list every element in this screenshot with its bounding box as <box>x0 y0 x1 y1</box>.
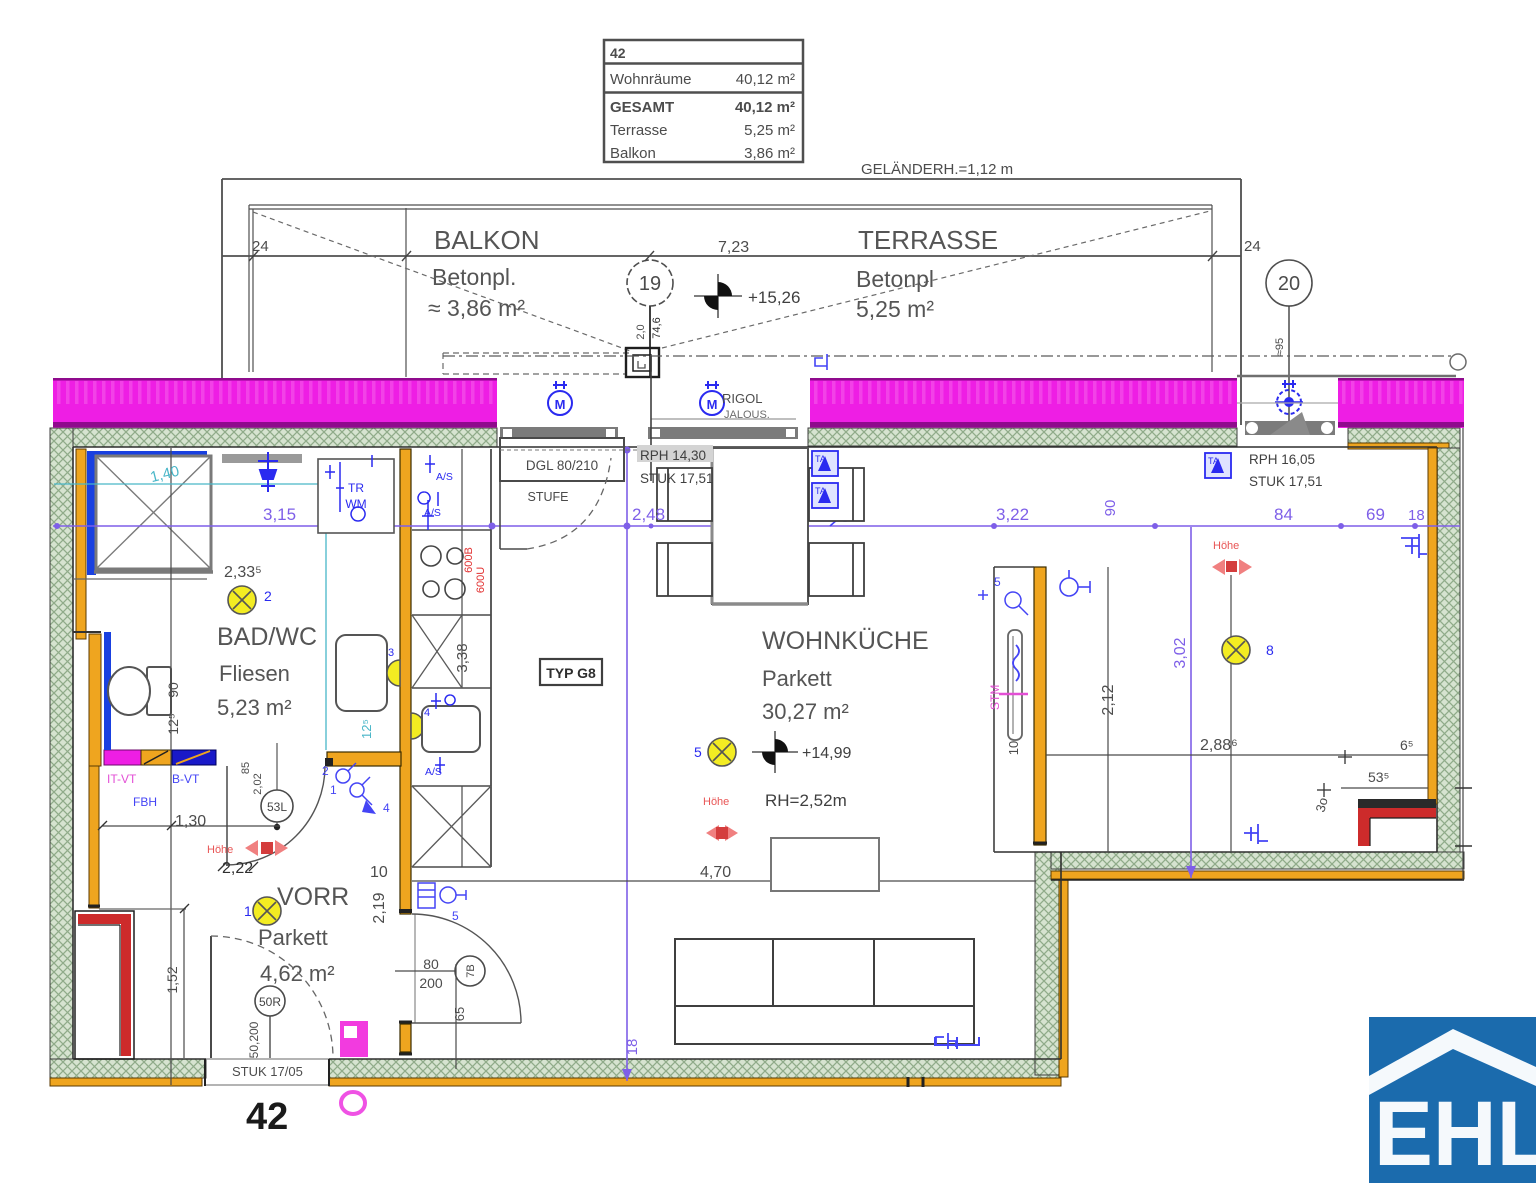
svg-text:19: 19 <box>639 273 661 295</box>
svg-text:2,88⁶: 2,88⁶ <box>1200 737 1238 754</box>
magenta circle <box>341 1092 365 1114</box>
hoehe marker bad <box>207 840 288 856</box>
blue wavy nook <box>1013 645 1019 681</box>
svg-text:TA: TA <box>815 486 826 496</box>
orange lining bottom right <box>1051 871 1464 879</box>
area table text <box>610 45 795 162</box>
svg-text:VORR: VORR <box>277 883 349 911</box>
svg-text:Höhe: Höhe <box>703 796 729 808</box>
entrance door swing <box>211 936 333 1058</box>
vorr second refline <box>183 909 185 1058</box>
lamp half corridor <box>411 713 424 739</box>
orange lining top right <box>1348 443 1449 449</box>
orange lining step <box>1059 871 1068 1077</box>
ta box 2 <box>812 483 838 508</box>
door label 7B <box>395 956 485 1069</box>
svg-text:Höhe: Höhe <box>207 844 233 856</box>
wm washing machine <box>318 459 394 533</box>
svg-text:1: 1 <box>244 903 252 919</box>
svg-text:+14,99: +14,99 <box>802 745 851 762</box>
blue fittings counter top <box>418 455 438 530</box>
svg-text:1,30: 1,30 <box>175 813 206 830</box>
lamp right room <box>1222 636 1274 664</box>
lamp half bad <box>387 660 400 686</box>
svg-text:WOHNKÜCHE: WOHNKÜCHE <box>762 627 929 655</box>
svg-text:5,25 m²: 5,25 m² <box>856 296 934 322</box>
stufe door swing <box>527 458 611 549</box>
window sill right <box>1237 376 1456 435</box>
svg-text:TYP G8: TYP G8 <box>546 665 596 681</box>
door jamb line <box>650 356 652 481</box>
shaft top line <box>99 908 186 910</box>
orange lining bottom left <box>50 1078 202 1086</box>
balkon label <box>428 225 540 321</box>
exterior wall top band left <box>50 428 497 447</box>
room label wohnkueche <box>762 627 929 724</box>
lamp line right <box>1230 575 1232 852</box>
dim line 2,88 <box>1046 754 1428 756</box>
line below shower <box>73 578 207 580</box>
svg-text:A/S: A/S <box>436 471 453 483</box>
tick marks red area <box>1317 750 1352 797</box>
svg-text:5,25 m²: 5,25 m² <box>744 122 795 139</box>
svg-text:2,48: 2,48 <box>632 505 665 524</box>
svg-text:RPH 14,30: RPH 14,30 <box>640 448 706 463</box>
terrasse label <box>856 225 998 322</box>
red shaft <box>75 911 134 1059</box>
washbasin <box>336 635 387 711</box>
entrance door leaf <box>210 936 212 1058</box>
svg-text:10: 10 <box>370 864 388 881</box>
tv outlet bottom <box>935 1037 979 1049</box>
outlet symbol near chair <box>830 498 862 526</box>
chair left top <box>657 468 712 521</box>
red neighbour wall <box>1358 799 1436 846</box>
svg-text:53L: 53L <box>267 800 287 814</box>
balcony diagonal <box>253 212 633 352</box>
dining table <box>712 448 808 604</box>
svg-text:12⁵: 12⁵ <box>359 719 374 739</box>
vorr-wohn door jamb <box>414 914 416 1023</box>
svg-text:TERRASSE: TERRASSE <box>858 225 998 255</box>
partition kitchen nook <box>1034 567 1046 845</box>
svg-text:Betonpl.: Betonpl. <box>432 264 516 290</box>
svg-text:24: 24 <box>252 238 269 255</box>
rph label right <box>1249 452 1323 489</box>
orange lining left wall lower <box>89 766 99 908</box>
radiator vorr door <box>418 883 466 908</box>
exterior wall step vertical <box>1035 852 1061 1075</box>
svg-text:1,52: 1,52 <box>164 966 180 993</box>
door sill balcony door <box>500 427 618 439</box>
svg-text:≈95: ≈95 <box>1274 338 1286 356</box>
svg-text:80: 80 <box>423 956 439 972</box>
svg-text:STUK 17/05: STUK 17/05 <box>232 1064 303 1079</box>
svg-text:RIGOL: RIGOL <box>722 391 762 406</box>
svg-text:90: 90 <box>1102 500 1119 517</box>
nook blue fittings <box>978 590 1028 615</box>
marker top left small <box>815 354 827 370</box>
bad room label <box>217 623 317 720</box>
svg-text:TR: TR <box>348 481 364 495</box>
blue fittings wm <box>325 455 372 521</box>
purple main dim line <box>53 525 1460 527</box>
svg-text:10: 10 <box>1006 741 1021 755</box>
svg-text:GELÄNDERH.=1,12 m: GELÄNDERH.=1,12 m <box>861 161 1013 178</box>
bad door arc <box>226 766 325 866</box>
svg-text:Parkett: Parkett <box>258 925 328 950</box>
partition vorr lower <box>400 1024 411 1052</box>
lamp bad <box>228 586 272 614</box>
stufe door frame <box>500 438 624 549</box>
svg-text:2,0: 2,0 <box>635 324 647 339</box>
svg-text:42: 42 <box>610 45 626 61</box>
cyan dim lines <box>54 483 326 485</box>
terrace inner slab <box>249 205 1212 377</box>
svg-text:≈ 3,86 m²: ≈ 3,86 m² <box>428 295 525 321</box>
vorr-wohn door swing <box>412 914 521 1023</box>
svg-text:STUFE: STUFE <box>528 490 569 504</box>
typ g8 stamp <box>540 659 602 685</box>
svg-text:TA: TA <box>1208 456 1219 466</box>
sideboard <box>771 838 879 891</box>
drain box rigol <box>626 348 659 377</box>
level marker +14,99 <box>752 731 851 773</box>
entrance jambs <box>205 1059 329 1086</box>
dim line 53 <box>1341 787 1428 789</box>
svg-text:EHL: EHL <box>1374 1082 1536 1183</box>
svg-text:Wohnräume: Wohnräume <box>610 71 691 88</box>
bad bottom wall magenta segment <box>104 750 141 765</box>
exterior wall bottom left band <box>50 1059 206 1078</box>
bad door label 53L <box>261 743 293 830</box>
svg-text:M: M <box>555 397 566 412</box>
svg-text:3: 3 <box>388 647 394 659</box>
svg-text:65: 65 <box>452 1007 467 1021</box>
door sill terrace door <box>648 419 798 439</box>
svg-text:90: 90 <box>165 682 181 698</box>
magenta insulation band <box>53 378 1464 428</box>
radiator nook <box>1008 630 1022 740</box>
chair right top <box>809 468 864 521</box>
fridge x-box <box>412 615 462 688</box>
svg-text:12⁵: 12⁵ <box>165 713 181 734</box>
rph label mid <box>637 445 714 486</box>
svg-text:+15,26: +15,26 <box>748 288 800 307</box>
lamp vorr <box>244 897 281 925</box>
svg-text:2,19: 2,19 <box>371 892 388 923</box>
svg-text:Höhe: Höhe <box>1213 540 1239 552</box>
terrace outer rail <box>222 179 1241 425</box>
svg-text:5: 5 <box>994 575 1001 589</box>
svg-text:M: M <box>707 397 718 412</box>
svg-text:BAD/WC: BAD/WC <box>217 623 317 651</box>
svg-text:IT-VT: IT-VT <box>107 772 137 786</box>
svg-text:3,02: 3,02 <box>1172 637 1189 668</box>
hoehe marker right <box>1212 540 1252 575</box>
shower <box>94 456 213 572</box>
shower blue tiles <box>96 451 207 457</box>
svg-text:2,33⁵: 2,33⁵ <box>224 564 262 581</box>
svg-text:600U: 600U <box>475 567 487 593</box>
svg-text:20: 20 <box>1278 273 1300 295</box>
orange lining left wall upper <box>76 449 86 639</box>
axis circle 20 <box>1266 260 1312 430</box>
axis circle 19 <box>627 260 673 378</box>
switches near bad door <box>336 763 372 805</box>
kitchen sink <box>422 706 480 752</box>
svg-text:50,200: 50,200 <box>247 1021 261 1058</box>
EHL logo <box>1369 1017 1536 1183</box>
exterior wall left <box>50 428 73 1078</box>
svg-text:18: 18 <box>1408 507 1425 524</box>
level marker +15,26 <box>694 274 800 318</box>
exterior wall bottom right band <box>1051 852 1464 869</box>
svg-text:5,23 m²: 5,23 m² <box>217 695 292 720</box>
svg-text:4,70: 4,70 <box>700 864 731 881</box>
outlet right of partition <box>1060 570 1090 596</box>
svg-text:3,15: 3,15 <box>263 505 296 524</box>
svg-text:5: 5 <box>452 909 459 923</box>
exterior wall top band mid <box>808 428 1237 446</box>
svg-text:TA: TA <box>815 454 826 464</box>
svg-text:Betonpl: Betonpl <box>856 266 934 292</box>
marker bottom right <box>1244 824 1268 844</box>
inner wall edge lines <box>73 447 1437 1059</box>
exterior wall top band right <box>1348 428 1460 448</box>
svg-text:Balkon: Balkon <box>610 145 656 162</box>
svg-text:18: 18 <box>624 1039 641 1056</box>
svg-text:5: 5 <box>694 744 702 760</box>
bad bottom wall orange hatch segment <box>141 750 172 765</box>
svg-text:B-VT: B-VT <box>172 772 200 786</box>
sink faucet <box>431 693 455 709</box>
vorr room label <box>258 883 349 986</box>
svg-text:RH=2,52m: RH=2,52m <box>765 791 847 810</box>
svg-text:50R: 50R <box>259 995 281 1009</box>
svg-text:600B: 600B <box>463 547 475 573</box>
svg-text:1: 1 <box>330 783 337 797</box>
svg-text:4: 4 <box>424 707 430 719</box>
svg-text:6⁵: 6⁵ <box>1400 737 1414 753</box>
wc blue tile strip <box>104 632 111 750</box>
window motor right <box>1275 380 1303 414</box>
magenta door panel <box>340 1021 368 1057</box>
ta box 1 <box>812 451 838 476</box>
svg-text:53⁵: 53⁵ <box>1368 769 1389 785</box>
svg-text:STUK 17,51: STUK 17,51 <box>640 471 714 486</box>
svg-text:40,12 m²: 40,12 m² <box>735 99 795 116</box>
svg-text:2,02: 2,02 <box>252 773 264 794</box>
svg-text:69: 69 <box>1366 505 1385 524</box>
kitchen counter <box>412 449 491 867</box>
sprinkler symbol top <box>258 452 278 492</box>
ta box right wall <box>1205 453 1231 478</box>
jalousie motor M left <box>548 381 572 415</box>
svg-text:Terrasse: Terrasse <box>610 122 668 139</box>
toilet <box>108 667 171 715</box>
svg-text:GESAMT: GESAMT <box>610 99 674 116</box>
svg-text:STM: STM <box>988 685 1002 710</box>
svg-text:3,22: 3,22 <box>996 505 1029 524</box>
shelf above shower <box>222 454 302 463</box>
orange lining right wall <box>1428 448 1437 804</box>
svg-text:40,12 m²: 40,12 m² <box>736 71 795 88</box>
svg-text:42: 42 <box>246 1096 288 1138</box>
svg-text:2: 2 <box>322 764 329 778</box>
svg-text:FBH: FBH <box>133 795 157 809</box>
wohnkueche bottom line 4.70 <box>412 880 1036 882</box>
nook vertical line <box>1107 567 1109 852</box>
purple vert line right <box>1190 527 1192 878</box>
chair left bottom <box>657 543 712 596</box>
purple vert line mid <box>626 450 628 1081</box>
bad bottom wall blue segment <box>172 750 216 765</box>
rail dim ticks <box>249 251 1217 261</box>
marker bottom mid <box>936 1033 956 1049</box>
window marker right wall <box>1401 534 1427 558</box>
svg-text:2: 2 <box>264 588 272 604</box>
svg-text:3,38: 3,38 <box>454 643 471 672</box>
svg-text:74,6: 74,6 <box>651 317 663 338</box>
right outer edge line <box>1462 428 1464 880</box>
svg-text:4: 4 <box>383 801 390 815</box>
svg-text:8: 8 <box>1266 642 1274 658</box>
svg-text:3,86 m²: 3,86 m² <box>744 145 795 162</box>
svg-text:200: 200 <box>419 975 443 991</box>
svg-text:BALKON: BALKON <box>434 225 540 255</box>
svg-text:7B: 7B <box>465 964 477 977</box>
partition bad/vorr right wall <box>400 449 411 914</box>
bad horizontal line <box>102 825 280 827</box>
kitchen nook lines <box>993 567 995 852</box>
area table box <box>604 40 803 162</box>
svg-text:STUK 17,51: STUK 17,51 <box>1249 474 1323 489</box>
entrance door label 50R <box>247 986 285 1058</box>
svg-text:85: 85 <box>240 762 252 774</box>
svg-text:A/S: A/S <box>424 507 441 519</box>
vert refline bad <box>170 448 172 1085</box>
svg-text:RPH 16,05: RPH 16,05 <box>1249 452 1315 467</box>
svg-text:24: 24 <box>1244 238 1261 255</box>
svg-text:4,62 m²: 4,62 m² <box>260 961 335 986</box>
wc step line <box>73 631 101 633</box>
lamp wohnkueche <box>694 738 736 766</box>
step dashed line terrace <box>443 353 630 374</box>
jalousie motor M mid <box>700 381 724 415</box>
cooktop <box>421 546 465 599</box>
svg-text:7,23: 7,23 <box>718 239 749 256</box>
svg-text:84: 84 <box>1274 505 1293 524</box>
exterior wall right <box>1437 448 1460 852</box>
sofa <box>675 939 974 1044</box>
svg-text:Fliesen: Fliesen <box>219 661 290 686</box>
micro dim ticks <box>98 821 258 913</box>
ticks right edge <box>1455 788 1472 846</box>
svg-text:30,27 m²: 30,27 m² <box>762 699 849 724</box>
bottom wall marks <box>908 1077 923 1087</box>
svg-text:DGL 80/210: DGL 80/210 <box>526 458 598 473</box>
bad bottom wall orange segment <box>327 752 401 766</box>
entrance threshold lines <box>206 1058 329 1060</box>
section line C <box>443 354 1466 370</box>
chair right bottom <box>809 543 864 596</box>
dishwasher x-box <box>412 786 491 867</box>
terrace diagonal <box>662 211 1210 348</box>
orange wall wc niche <box>89 634 101 766</box>
svg-text:Parkett: Parkett <box>762 666 832 691</box>
